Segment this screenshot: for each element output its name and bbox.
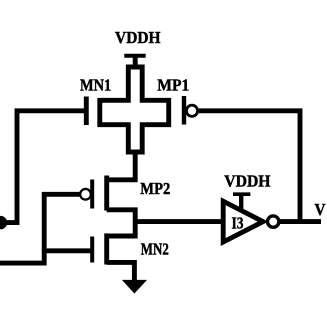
svg-text:MP1: MP1 — [157, 76, 189, 95]
svg-text:MN1: MN1 — [80, 76, 111, 95]
svg-text:MN2: MN2 — [141, 239, 169, 258]
svg-text:I3: I3 — [232, 214, 244, 233]
svg-text:VDDH: VDDH — [224, 172, 270, 191]
svg-text:MP2: MP2 — [140, 179, 170, 198]
svg-text:VDDH: VDDH — [115, 28, 161, 47]
svg-text:V: V — [315, 200, 326, 219]
